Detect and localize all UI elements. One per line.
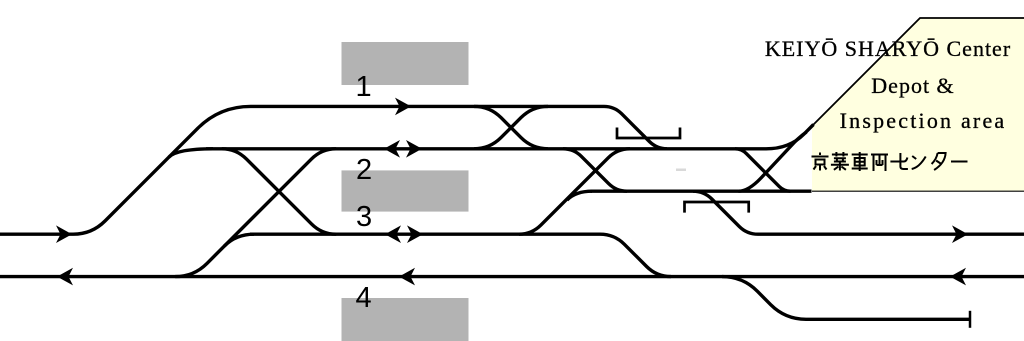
svg-text:4: 4 xyxy=(356,282,372,314)
svg-text:1: 1 xyxy=(356,71,372,103)
svg-text:2: 2 xyxy=(356,154,372,186)
svg-text:KEIYŌ SHARYŌ Center: KEIYŌ SHARYŌ Center xyxy=(765,36,1011,61)
svg-text:3: 3 xyxy=(356,201,372,233)
svg-text:Inspection area: Inspection area xyxy=(840,108,1007,133)
svg-text:Depot &: Depot & xyxy=(871,73,954,98)
